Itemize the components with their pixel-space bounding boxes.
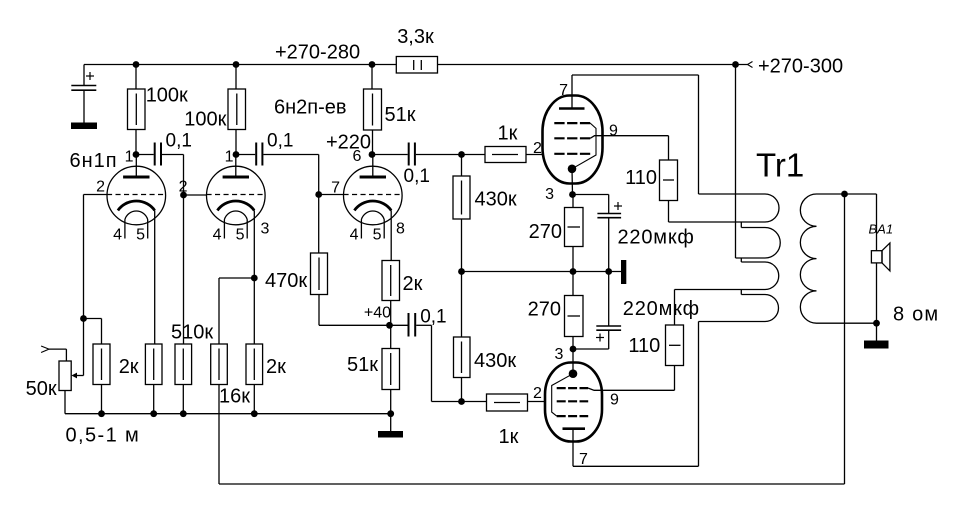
svg-text:+220: +220 [326, 131, 371, 153]
svg-text:9: 9 [610, 392, 619, 409]
svg-text:7: 7 [579, 451, 588, 468]
svg-text:Tr1: Tr1 [756, 147, 804, 184]
svg-text:2к: 2к [119, 356, 139, 378]
svg-text:1: 1 [125, 149, 134, 166]
svg-text:BA1: BA1 [869, 222, 894, 237]
svg-text:470к: 470к [265, 270, 307, 292]
svg-text:8: 8 [396, 221, 405, 238]
svg-text:510к: 510к [171, 322, 213, 344]
svg-text:50к: 50к [26, 378, 57, 400]
svg-text:430к: 430к [474, 350, 516, 372]
svg-text:270: 270 [528, 299, 561, 321]
svg-text:6н2п-ев: 6н2п-ев [274, 97, 347, 119]
svg-text:1: 1 [225, 149, 234, 166]
svg-text:1к: 1к [498, 123, 518, 145]
svg-text:110: 110 [625, 167, 657, 189]
svg-text:9: 9 [609, 123, 618, 140]
svg-text:2: 2 [533, 385, 542, 402]
svg-text:2к: 2к [403, 273, 423, 295]
svg-text:2: 2 [533, 140, 542, 157]
svg-text:0,1: 0,1 [420, 307, 446, 328]
svg-text:1к: 1к [499, 426, 519, 448]
svg-text:51к: 51к [385, 104, 416, 126]
svg-text:16к: 16к [219, 386, 250, 408]
svg-text:+270-300: +270-300 [758, 55, 843, 77]
svg-text:51к: 51к [347, 354, 378, 376]
svg-text:3: 3 [545, 186, 554, 203]
svg-text:270: 270 [529, 221, 562, 243]
svg-text:0,1: 0,1 [404, 166, 430, 187]
svg-text:220мкф: 220мкф [623, 298, 700, 320]
svg-text:0,1: 0,1 [166, 131, 192, 152]
svg-text:2: 2 [96, 179, 105, 196]
svg-text:+270-280: +270-280 [275, 42, 360, 64]
svg-text:7: 7 [559, 82, 568, 99]
svg-text:220мкф: 220мкф [618, 227, 695, 249]
svg-text:100к: 100к [146, 85, 188, 107]
svg-text:0,5-1 м: 0,5-1 м [66, 425, 141, 447]
svg-text:0,1: 0,1 [267, 131, 293, 152]
svg-text:2к: 2к [266, 356, 286, 378]
svg-text:430к: 430к [475, 189, 517, 211]
svg-text:+40: +40 [364, 305, 391, 322]
svg-text:3,3к: 3,3к [397, 26, 434, 48]
svg-text:110: 110 [628, 335, 660, 357]
svg-text:6н1п: 6н1п [70, 150, 118, 172]
svg-text:3: 3 [261, 221, 270, 238]
svg-text:3: 3 [555, 346, 564, 363]
svg-text:8 ом: 8 ом [893, 304, 939, 326]
svg-text:100к: 100к [184, 109, 226, 131]
